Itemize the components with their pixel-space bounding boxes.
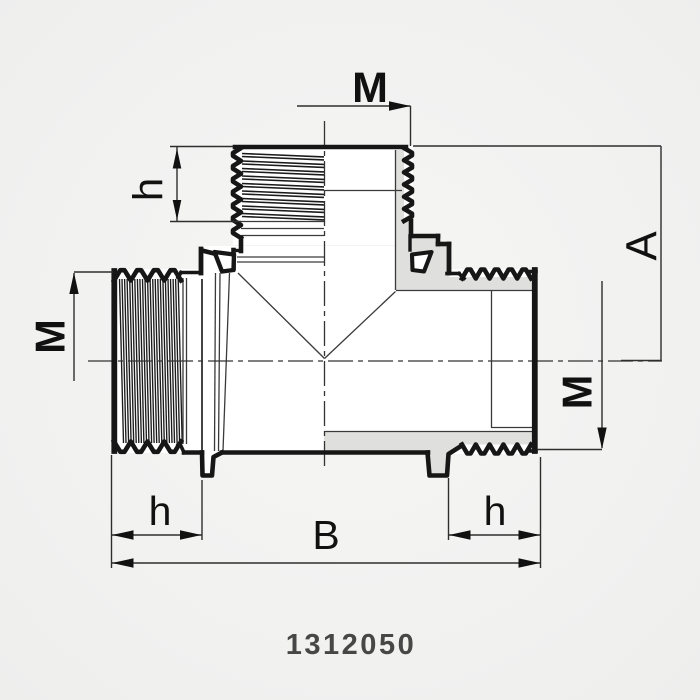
dimension h (bottom left) — [112, 455, 203, 568]
svg-text:h: h — [484, 488, 507, 534]
dimension A (right side) — [413, 146, 661, 361]
main outline: right port — [462, 270, 536, 454]
top port thread hatch lines (left half) — [242, 154, 324, 220]
svg-text:A: A — [618, 231, 667, 261]
dimension M (right port) — [537, 281, 602, 450]
svg-text:M: M — [554, 375, 601, 410]
main outline: bottom run and notches — [184, 446, 461, 476]
tee fitting white body fill — [112, 145, 538, 477]
dimension h (bottom right) — [449, 457, 541, 568]
main outline: left port — [114, 270, 184, 452]
left port thread hatch lines — [120, 279, 183, 443]
vertical centerline — [324, 121, 326, 467]
thin internal lines — [183, 150, 533, 451]
svg-text:1312050: 1312050 — [286, 629, 416, 661]
dimension M (top) leader line — [297, 106, 411, 146]
left flange chamfer teardrop — [215, 252, 235, 272]
dimension h (top port) — [170, 147, 241, 222]
horizontal centerline — [88, 360, 662, 362]
gray section fill: bottom band and right notch — [324, 432, 534, 477]
svg-text:h: h — [125, 178, 172, 201]
dimension B (overall width) — [112, 562, 541, 564]
gray section fill: top-right flange region — [395, 150, 534, 290]
dimension M (left port) — [74, 272, 113, 381]
right flange chamfer teardrop — [412, 252, 432, 272]
main outline: left joint / flange — [178, 249, 241, 278]
svg-text:h: h — [149, 488, 172, 534]
svg-text:M: M — [27, 319, 74, 354]
main outline: top port — [233, 147, 412, 251]
main outline: right joint / flange — [410, 236, 464, 279]
svg-text:B: B — [312, 512, 339, 558]
svg-text:M: M — [352, 64, 388, 112]
